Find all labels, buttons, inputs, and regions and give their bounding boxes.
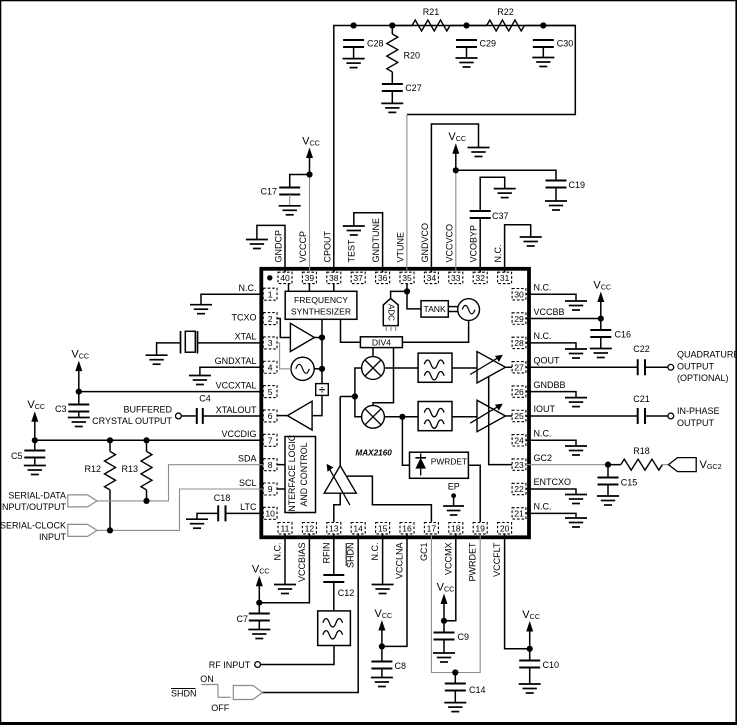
svg-text:GNDTUNE: GNDTUNE bbox=[371, 218, 381, 263]
terminal VGC2 flag bbox=[669, 458, 697, 472]
ground pin 31 bbox=[520, 237, 542, 246]
svg-text:ON: ON bbox=[200, 674, 214, 684]
ground below C17 bbox=[279, 206, 301, 215]
wire ENTCXO pin 22 to ground bbox=[526, 489, 576, 495]
wire node to R22 bbox=[467, 25, 487, 27]
capacitor C4 bbox=[197, 394, 211, 424]
junction C30 bbox=[540, 22, 546, 28]
svg-text:N.C.: N.C. bbox=[534, 331, 552, 341]
wire RFIN pin 13 to attenuator bbox=[334, 493, 340, 522]
svg-text:N.C.: N.C. bbox=[534, 502, 552, 512]
bottom pin name labels bbox=[273, 542, 503, 582]
ground pin 21 bbox=[565, 518, 587, 527]
svg-text:30: 30 bbox=[514, 289, 524, 299]
wire Vcc node to C17 bbox=[290, 175, 310, 188]
svg-text:XTALOUT: XTALOUT bbox=[216, 405, 257, 415]
svg-text:C21: C21 bbox=[633, 394, 650, 404]
pin 35 box bbox=[400, 272, 414, 283]
switch SHDN ON/OFF bbox=[202, 685, 231, 698]
svg-text:INPUT: INPUT bbox=[39, 532, 67, 542]
amplifier VGA Q (upper) bbox=[470, 352, 505, 384]
junction R13 top bbox=[143, 437, 149, 443]
svg-text:CPOUT: CPOUT bbox=[322, 230, 332, 262]
svg-text:XTAL: XTAL bbox=[235, 332, 257, 342]
svg-text:9: 9 bbox=[268, 484, 273, 494]
ground GNDTUNE bbox=[343, 226, 365, 235]
wire pin 8 stub bbox=[277, 464, 285, 466]
wire RF split to attenuator bbox=[340, 396, 355, 398]
wire pin 28 N.C. to ground bbox=[526, 343, 576, 349]
svg-text:VCCCP: VCCCP bbox=[298, 231, 308, 263]
svg-text:SYNTHESIZER: SYNTHESIZER bbox=[291, 307, 351, 317]
wire node to C15 bbox=[607, 465, 609, 478]
ground below C9 bbox=[433, 653, 455, 662]
Vcc supply VCCFLT bbox=[522, 609, 540, 652]
ground below C7 bbox=[248, 630, 270, 639]
capacitor C22 bbox=[633, 344, 650, 375]
svg-text:GNDXTAL: GNDXTAL bbox=[215, 356, 257, 366]
junction RF split bbox=[352, 393, 358, 399]
pin 20 box bbox=[498, 523, 512, 534]
wire TANK to VCO twin leads bbox=[448, 306, 458, 308]
terminal BUFFERED CRYSTAL OUTPUT bbox=[176, 413, 182, 419]
svg-text:1: 1 bbox=[268, 289, 273, 299]
wire VCCVCO pin 33 stub bbox=[455, 170, 457, 272]
terminal RF INPUT bbox=[255, 662, 261, 668]
wire filter I to VGA bbox=[452, 367, 477, 369]
svg-text:PWRDET: PWRDET bbox=[468, 542, 478, 581]
pin 9 box bbox=[263, 483, 277, 495]
pin 19 box bbox=[473, 523, 487, 534]
pin 17 box bbox=[424, 523, 438, 534]
svg-text:ENTCXO: ENTCXO bbox=[534, 477, 572, 487]
wire C16 to ground bbox=[600, 337, 602, 349]
svg-text:R22: R22 bbox=[497, 7, 514, 17]
pin 24 box bbox=[512, 435, 526, 446]
svg-text:C17: C17 bbox=[260, 186, 277, 196]
ground below C5 bbox=[24, 466, 46, 475]
capacitor C3 bbox=[55, 404, 89, 414]
wire C14 to ground bbox=[454, 691, 456, 703]
pin 28 box bbox=[512, 337, 526, 348]
svg-text:GNDVCO: GNDVCO bbox=[420, 223, 430, 263]
svg-text:C12: C12 bbox=[338, 588, 355, 598]
wire Vcc node to C5 bbox=[34, 440, 36, 450]
svg-text:OFF: OFF bbox=[211, 703, 229, 713]
svg-text:N.C.: N.C. bbox=[239, 283, 257, 293]
wire Vcc node to C8 bbox=[381, 646, 383, 661]
right pin name labels bbox=[534, 282, 572, 511]
wire filter Q to VGA bbox=[452, 416, 477, 418]
exposed pad EP bbox=[451, 493, 456, 498]
svg-text:MAX2160: MAX2160 bbox=[355, 449, 392, 458]
svg-text:16: 16 bbox=[402, 523, 412, 533]
svg-text:38: 38 bbox=[329, 273, 339, 283]
wire synthesizer down-chain bbox=[321, 319, 323, 383]
pin 18 box bbox=[449, 523, 463, 534]
capacitor C19 bbox=[546, 180, 586, 190]
wire C22 to terminal bbox=[645, 366, 668, 368]
svg-text:GC2: GC2 bbox=[534, 453, 553, 463]
ground GNDVCO bbox=[468, 148, 490, 157]
svg-text:SHDN: SHDN bbox=[346, 543, 356, 569]
capacitor C27 bbox=[382, 83, 422, 93]
ground below C29 bbox=[456, 47, 478, 67]
svg-text:DIV4: DIV4 bbox=[372, 337, 391, 347]
block TANK bbox=[421, 301, 448, 317]
svg-text:VCCDIG: VCCDIG bbox=[221, 429, 256, 439]
pin 1 index marker bbox=[267, 275, 272, 280]
junction C28/CPOUT bbox=[351, 22, 357, 28]
ground LTC bbox=[186, 519, 208, 528]
svg-text:SDA: SDA bbox=[238, 453, 257, 463]
svg-text:29: 29 bbox=[514, 314, 524, 324]
wire VCCBIAS pin 12 bbox=[259, 535, 309, 603]
capacitor C29 bbox=[456, 39, 496, 49]
wire pin 9 stub bbox=[277, 488, 285, 490]
ground below C10 bbox=[519, 684, 541, 693]
svg-text:C19: C19 bbox=[569, 180, 586, 190]
pin 29 box bbox=[512, 313, 526, 324]
wire pin 40 stub to synthesizer bbox=[288, 284, 290, 292]
wire Vcc node to C3 bbox=[78, 392, 80, 405]
Vcc supply VCCDIG bbox=[27, 399, 45, 443]
pin 38 box bbox=[327, 272, 341, 283]
wire pin 30 N.C. to ground bbox=[526, 294, 576, 301]
svg-text:SCL: SCL bbox=[239, 478, 257, 488]
pin 3 box bbox=[263, 337, 277, 349]
capacitor C16 bbox=[590, 330, 631, 340]
wire R20 to C27 bbox=[391, 26, 393, 35]
svg-text:35: 35 bbox=[402, 273, 412, 283]
pin 10 box bbox=[263, 507, 277, 519]
terminal SERIAL-DATA flag bbox=[68, 495, 97, 507]
svg-text:37: 37 bbox=[353, 273, 363, 283]
svg-text:C37: C37 bbox=[492, 211, 509, 221]
wire VCO to DIV4 bbox=[402, 321, 468, 343]
ground below C14 bbox=[444, 703, 466, 712]
amplifier TCXO buffer A1 bbox=[290, 323, 314, 351]
pin 16 box bbox=[400, 523, 414, 534]
wire node to TANK bbox=[407, 291, 421, 309]
svg-text:31: 31 bbox=[500, 273, 510, 283]
capacitor C12 bbox=[323, 575, 354, 598]
wire Vcc node to C9 bbox=[443, 621, 445, 633]
wire VTUNE loop return right side bbox=[407, 26, 575, 115]
svg-text:IOUT: IOUT bbox=[534, 404, 556, 414]
svg-text:VCCBB: VCCBB bbox=[534, 307, 565, 317]
wire pin 11 N.C. to ground bbox=[284, 535, 286, 585]
wire LTC pin 10 to C18 bbox=[226, 512, 264, 514]
capacitor C30 bbox=[533, 39, 574, 49]
ground below C16 bbox=[590, 349, 612, 358]
ground pin 1 bbox=[190, 305, 212, 314]
wire C21 to terminal bbox=[645, 415, 668, 417]
filter FL1 (RF bandpass) bbox=[318, 611, 351, 646]
wire node to R18 bbox=[608, 464, 621, 466]
svg-text:LTC: LTC bbox=[240, 502, 257, 512]
svg-text:QOUT: QOUT bbox=[534, 355, 561, 365]
junction GC1/PWRDET/C14 bbox=[452, 669, 458, 675]
svg-text:12: 12 bbox=[305, 523, 315, 533]
pin 32 box bbox=[473, 272, 487, 283]
wire DIV4 to mixer I bbox=[372, 348, 374, 357]
svg-text:INPUT/OUTPUT: INPUT/OUTPUT bbox=[0, 502, 67, 512]
svg-text:18: 18 bbox=[451, 523, 461, 533]
amplifier VGA I (lower) bbox=[470, 400, 505, 432]
resistor R18 bbox=[621, 446, 663, 470]
wire PWRDET to pin 19 bbox=[468, 465, 480, 522]
svg-text:IN-PHASE: IN-PHASE bbox=[677, 406, 720, 416]
ground below C8 bbox=[371, 678, 393, 687]
pin 34 box bbox=[424, 272, 438, 283]
wire C10 to ground bbox=[529, 668, 531, 685]
svg-text:EP: EP bbox=[448, 482, 460, 492]
pin 15 box bbox=[376, 523, 390, 534]
svg-text:C30: C30 bbox=[557, 39, 574, 49]
svg-text:AND CONTROL: AND CONTROL bbox=[299, 442, 309, 506]
svg-text:RFIN: RFIN bbox=[321, 543, 331, 564]
svg-text:GC1: GC1 bbox=[419, 543, 429, 562]
wire divider to XTALOUT buffer bbox=[312, 395, 322, 415]
wire GC1 gain control bbox=[347, 476, 431, 522]
ground ENTCXO bbox=[565, 495, 587, 504]
svg-text:RF INPUT: RF INPUT bbox=[209, 660, 251, 670]
svg-text:10: 10 bbox=[265, 509, 275, 519]
Vcc supply VCCBIAS bbox=[252, 564, 270, 606]
wire VGA to IOUT pin 25 bbox=[506, 415, 513, 417]
wire pin 15 N.C. to ground bbox=[382, 535, 384, 585]
pin 12 box bbox=[302, 523, 316, 534]
junction amp output bbox=[319, 334, 325, 340]
wire C12 to filter FL1 bbox=[333, 582, 335, 611]
junction PWRDET tap bbox=[399, 414, 405, 420]
svg-text:C22: C22 bbox=[633, 344, 650, 354]
svg-text:15: 15 bbox=[378, 523, 388, 533]
svg-text:FREQUENCY: FREQUENCY bbox=[294, 295, 348, 305]
svg-text:28: 28 bbox=[514, 338, 524, 348]
svg-text:R20: R20 bbox=[404, 51, 421, 61]
mixer Q (lower) bbox=[362, 405, 385, 428]
svg-text:C15: C15 bbox=[621, 478, 638, 488]
capacitor C7 bbox=[236, 614, 269, 625]
svg-text:TANK: TANK bbox=[423, 304, 446, 314]
svg-text:C3: C3 bbox=[55, 404, 67, 414]
wire GNDXTAL pin 4 to ground bbox=[200, 367, 263, 375]
pin 37 box bbox=[351, 272, 365, 283]
wire C8 to ground bbox=[381, 669, 383, 678]
wire mixer I to filter I bbox=[384, 367, 418, 369]
ground GNDBB bbox=[565, 398, 587, 407]
svg-text:R18: R18 bbox=[633, 446, 650, 456]
wire node to ADC bbox=[391, 291, 407, 298]
wire VCCXTAL pin 5 to Vcc bbox=[79, 391, 263, 393]
svg-text:OUTPUT: OUTPUT bbox=[677, 361, 715, 371]
ground below C27 bbox=[381, 91, 403, 112]
svg-text:BUFFERED: BUFFERED bbox=[123, 405, 172, 415]
pin 6 box bbox=[263, 410, 277, 422]
svg-text:19: 19 bbox=[475, 523, 485, 533]
svg-text:N.C.: N.C. bbox=[370, 543, 380, 561]
svg-text:32: 32 bbox=[475, 273, 485, 283]
resistor R13 bbox=[121, 451, 152, 490]
pin 22 box bbox=[512, 483, 526, 494]
junction GC2/C15 bbox=[605, 462, 611, 468]
pin 14 box bbox=[351, 523, 365, 534]
svg-text:11: 11 bbox=[281, 523, 290, 533]
capacitor C9 bbox=[434, 632, 470, 642]
pin 30 box bbox=[512, 289, 526, 300]
wire buffer to pin 6 bbox=[277, 415, 287, 417]
wire VTUNE vertical into pin 35 bbox=[406, 115, 408, 273]
wire Vcc node to C10 bbox=[529, 649, 531, 661]
wire C7 to ground bbox=[258, 621, 260, 630]
svg-text:23: 23 bbox=[514, 460, 524, 470]
junction oscillator output bbox=[319, 366, 325, 372]
wire C5 to ground bbox=[34, 458, 36, 466]
wire GNDVCO pin 34 to ground bbox=[431, 124, 478, 272]
pin 4 box bbox=[263, 361, 277, 373]
wire XTAL pin 3 to crystal bbox=[198, 342, 264, 344]
terminal IN-PHASE OUTPUT bbox=[668, 413, 674, 419]
wire VGA to QOUT pin 27 bbox=[506, 366, 513, 368]
svg-text:R13: R13 bbox=[121, 464, 138, 474]
svg-text:5: 5 bbox=[268, 387, 273, 397]
wire SHDN pin 14 net bbox=[263, 535, 359, 693]
wire pin 24 N.C. to ground bbox=[526, 440, 576, 446]
wire SCL net bbox=[97, 489, 263, 530]
ground GNDXTAL bbox=[189, 376, 211, 385]
svg-text:40: 40 bbox=[280, 273, 290, 283]
Vcc supply VCCLNA bbox=[375, 608, 393, 650]
svg-text:OUTPUT: OUTPUT bbox=[677, 418, 715, 428]
svg-text:R12: R12 bbox=[84, 464, 101, 474]
pin 8 box bbox=[263, 459, 277, 471]
svg-text:13: 13 bbox=[329, 523, 339, 533]
ground below C3 bbox=[68, 418, 90, 427]
pin 39 box bbox=[302, 272, 316, 283]
wire pin 3 XTAL to oscillator bbox=[277, 343, 291, 369]
wire Vcc node to C16 bbox=[600, 319, 602, 330]
wire VCCBB pin 29 bbox=[526, 318, 601, 320]
svg-text:36: 36 bbox=[378, 273, 388, 283]
wire VCCLNA pin 16 bbox=[382, 535, 407, 647]
svg-text:2: 2 bbox=[268, 314, 273, 324]
block INTERFACE LOGIC AND CONTROL bbox=[285, 434, 316, 514]
wire XTALOUT pin 6 to C4 bbox=[203, 415, 263, 417]
wire GNDCP pin 40 to ground bbox=[257, 225, 285, 272]
resistor R12 bbox=[84, 451, 115, 490]
wire pin 21 N.C. to ground bbox=[526, 513, 576, 518]
capacitor C17 bbox=[260, 186, 300, 196]
svg-text:VCCMX: VCCMX bbox=[443, 543, 453, 576]
amplifier XTALOUT buffer A2 bbox=[287, 401, 312, 430]
svg-text:24: 24 bbox=[514, 436, 524, 446]
svg-text:4: 4 bbox=[268, 362, 273, 372]
pin 11 box bbox=[278, 523, 292, 534]
wire amplifier output to node bbox=[314, 337, 322, 339]
svg-text:(OPTIONAL): (OPTIONAL) bbox=[677, 373, 729, 383]
wire node to R21 bbox=[392, 25, 412, 27]
svg-text:39: 39 bbox=[305, 273, 315, 283]
block ADC bbox=[383, 298, 398, 331]
block PWRDET with detector diode bbox=[410, 452, 469, 478]
wire C4 to output terminal bbox=[181, 415, 197, 417]
junction R12/SCL bbox=[107, 527, 113, 533]
ground crystal bbox=[146, 355, 168, 364]
svg-text:20: 20 bbox=[500, 523, 510, 533]
wire CPOUT net from pin 38 to loop-filter rail bbox=[334, 26, 576, 273]
svg-text:26: 26 bbox=[514, 387, 524, 397]
capacitor C15 bbox=[598, 478, 638, 488]
pin 7 box bbox=[263, 434, 277, 446]
pin 1 box bbox=[263, 288, 277, 300]
wire C37 to ground bbox=[480, 177, 505, 211]
capacitor C28 bbox=[343, 39, 383, 49]
pin 33 box bbox=[449, 272, 463, 283]
ground pin 15 bbox=[372, 585, 394, 594]
oscillator VCO bbox=[458, 299, 480, 321]
Vcc supply VCCVCO bbox=[448, 131, 466, 173]
block FREQUENCY SYNTHESIZER bbox=[285, 291, 357, 319]
wire R18 to VGC2 flag bbox=[662, 464, 668, 466]
wire C17 to ground bbox=[289, 195, 291, 206]
pin 36 box bbox=[376, 272, 390, 283]
svg-text:C7: C7 bbox=[236, 614, 248, 624]
pin 25 box bbox=[512, 410, 526, 421]
capacitor C8 bbox=[371, 661, 406, 671]
resistor R20 bbox=[387, 34, 420, 72]
pin 27 box bbox=[512, 362, 526, 373]
ground below C28 bbox=[343, 47, 365, 68]
wire pin 31 N.C. to ground bbox=[505, 225, 531, 272]
wire QOUT to C22 bbox=[526, 366, 638, 368]
capacitor C37 bbox=[470, 211, 509, 221]
svg-text:VCCFLT: VCCFLT bbox=[492, 542, 502, 577]
wire EP to ground bbox=[453, 496, 455, 506]
svg-text:C8: C8 bbox=[395, 661, 407, 671]
wire RF to mixer I bbox=[355, 368, 362, 417]
wire VCOBYP pin 32 to C37 bbox=[479, 218, 481, 272]
wire GC1 pin 17 to C14 node bbox=[431, 535, 455, 673]
wire C18 to ground bbox=[197, 513, 218, 519]
wire pin 2 TCXO to amplifier bbox=[277, 319, 290, 338]
IC U1 MAX2160 body outline bbox=[261, 269, 529, 538]
wire GC2 pin 23 to node bbox=[526, 464, 608, 466]
resistor R22 bbox=[487, 7, 525, 31]
wire PWRDET pin 19 to C14 node bbox=[455, 535, 480, 673]
svg-text:INTERFACE LOGIC: INTERFACE LOGIC bbox=[287, 434, 297, 514]
wire node to C14 bbox=[454, 673, 456, 684]
svg-text:25: 25 bbox=[514, 411, 524, 421]
pin 5 box bbox=[263, 386, 277, 398]
wire mixer Q tap to PWRDET bbox=[402, 417, 409, 465]
svg-text:SERIAL-DATA: SERIAL-DATA bbox=[8, 491, 66, 501]
filter I channel bbox=[418, 353, 452, 382]
svg-text:SERIAL-CLOCK: SERIAL-CLOCK bbox=[0, 521, 66, 531]
Vcc supply VCCBB bbox=[593, 279, 611, 321]
svg-text:VCOBYP: VCOBYP bbox=[469, 225, 479, 263]
ground EP bbox=[443, 506, 464, 515]
junction R13/SDA bbox=[143, 498, 149, 504]
svg-text:3: 3 bbox=[268, 338, 273, 348]
crystal Y1 bbox=[181, 331, 198, 354]
svg-text:SHDN: SHDN bbox=[171, 689, 197, 699]
junction R12 top bbox=[107, 437, 113, 443]
svg-text:22: 22 bbox=[514, 484, 524, 494]
block divider bbox=[316, 384, 329, 397]
ground GNDCP bbox=[246, 240, 268, 249]
